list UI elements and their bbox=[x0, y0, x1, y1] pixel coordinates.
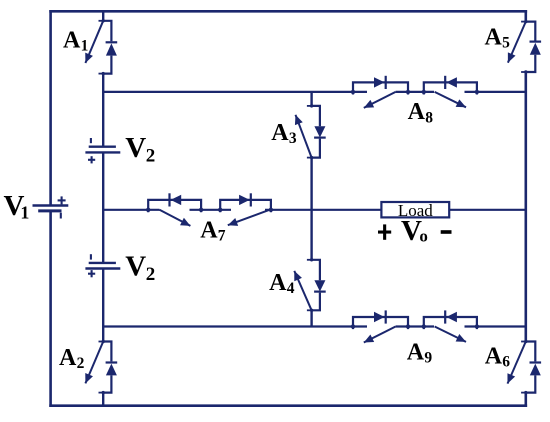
label + of Vo bbox=[378, 224, 391, 239]
wire right border middle (A5 to A6) bbox=[524, 72, 527, 342]
wire row3 left segment (bus to A9) bbox=[103, 325, 367, 327]
wire left bus segment top (border to A1) bbox=[102, 11, 104, 20]
svg-text:2: 2 bbox=[146, 264, 156, 285]
load box bbox=[381, 202, 449, 217]
node at A8 right stub bbox=[475, 90, 479, 94]
svg-text:2: 2 bbox=[77, 355, 85, 372]
node at A9 left stub bbox=[351, 324, 355, 328]
node at A9 right stub bbox=[475, 324, 479, 328]
wire row2 segment (load box to right border) bbox=[449, 209, 526, 211]
bidirectional switch A7 right half: diode loop bbox=[220, 193, 271, 212]
wire middle bus segment (row1 to A3) bbox=[310, 92, 312, 106]
svg-text:A: A bbox=[63, 28, 81, 54]
battery V2 lower bbox=[85, 254, 120, 277]
bidirectional switch A8 right half: blade bbox=[435, 92, 466, 107]
label minus of Vo bbox=[441, 230, 452, 234]
bidirectional switch A8 left half: blade bbox=[364, 92, 396, 108]
bidirectional switch A7 right half: blade bbox=[228, 210, 270, 225]
bidirectional switch A9 right half: diode loop bbox=[424, 310, 477, 329]
svg-text:6: 6 bbox=[502, 354, 510, 371]
svg-text:8: 8 bbox=[425, 109, 433, 126]
switch A2 bbox=[85, 340, 105, 395]
bidirectional switch A9 left half: diode loop bbox=[353, 310, 408, 329]
node at A7 inner right bbox=[218, 208, 222, 212]
wire bottom border bbox=[49, 404, 527, 407]
wire right border bottom (below A6) bbox=[524, 393, 527, 407]
diode D4 (antiparallel of A4) bbox=[312, 260, 326, 311]
svg-text:7: 7 bbox=[218, 228, 226, 245]
svg-text:A: A bbox=[408, 99, 426, 125]
svg-text:o: o bbox=[419, 226, 428, 245]
wire left bus segment bottom (A2 to border) bbox=[102, 393, 104, 406]
wire row1 right segment (A8 to right border) bbox=[465, 91, 526, 93]
diode D6 (antiparallel of A6) bbox=[526, 342, 541, 393]
svg-text:3: 3 bbox=[289, 130, 297, 147]
wire middle bus segment (A4 to row3) bbox=[310, 310, 312, 326]
svg-text:V: V bbox=[125, 132, 146, 164]
svg-text:1: 1 bbox=[20, 202, 29, 222]
diode D2 (antiparallel of A2) bbox=[103, 342, 117, 393]
diode D5 (antiparallel of A5) bbox=[526, 22, 541, 72]
svg-text:A: A bbox=[269, 270, 287, 296]
wire row2 segment (A7 to load box) bbox=[265, 209, 381, 211]
node at A7 inner left bbox=[199, 208, 203, 212]
svg-text:2: 2 bbox=[146, 146, 156, 167]
wire middle bus segment (A3 to A4) bbox=[310, 158, 312, 260]
wire row3 right segment (A9 to right border) bbox=[465, 325, 526, 327]
wire row3 middle segment (between A9 halves) bbox=[396, 325, 434, 327]
wire row1 middle segment (between A8 halves) bbox=[396, 91, 434, 93]
wire top border bbox=[49, 10, 527, 13]
switch A4 bbox=[294, 258, 313, 312]
node at A8 left stub bbox=[351, 90, 355, 94]
svg-text:A: A bbox=[407, 340, 425, 366]
switch A6 bbox=[508, 340, 528, 395]
svg-text:A: A bbox=[200, 218, 218, 244]
bidirectional switch A9 right half: blade bbox=[435, 327, 466, 342]
wire right border top (above A5) bbox=[524, 10, 527, 22]
svg-text:5: 5 bbox=[502, 35, 510, 52]
battery V2 upper bbox=[85, 138, 120, 163]
node at A7 right stub bbox=[269, 208, 273, 212]
svg-text:A: A bbox=[59, 345, 77, 371]
wire row1 left segment (bus to A8) bbox=[103, 91, 367, 93]
switch A5 bbox=[508, 20, 528, 74]
wire left border lower (below V1) bbox=[49, 211, 52, 407]
node at A7 left stub bbox=[146, 208, 150, 212]
svg-text:9: 9 bbox=[424, 350, 432, 367]
node at A8 inner right bbox=[422, 90, 426, 94]
wire row2 segment (between A7 halves) bbox=[190, 209, 232, 211]
wire left border upper (above V1) bbox=[49, 10, 52, 206]
node at A9 inner left bbox=[406, 324, 410, 328]
node at A8 inner left bbox=[406, 90, 410, 94]
svg-text:4: 4 bbox=[287, 280, 295, 297]
svg-text:V: V bbox=[125, 251, 146, 283]
wire row2 segment (bus to A7) bbox=[103, 209, 159, 211]
bidirectional switch A7 left half: blade bbox=[160, 210, 191, 226]
bidirectional switch A9 left half: blade bbox=[364, 327, 396, 343]
wire left bus segment (A1 to upper V2) bbox=[102, 74, 104, 147]
node at A9 inner right bbox=[422, 324, 426, 328]
svg-text:A: A bbox=[485, 344, 503, 370]
bidirectional switch A8 right half: diode loop bbox=[424, 76, 477, 95]
svg-text:A: A bbox=[485, 25, 503, 51]
switch A1 bbox=[85, 19, 105, 75]
bidirectional switch A7 left half: diode loop bbox=[148, 193, 201, 212]
diode D1 (antiparallel of A1) bbox=[103, 21, 117, 74]
bidirectional switch A8 left half: diode loop bbox=[353, 76, 408, 95]
wire left bus segment (upper V2 to lower V2) bbox=[102, 152, 104, 263]
diode D3 (antiparallel of A3) bbox=[312, 106, 326, 158]
svg-text:1: 1 bbox=[81, 38, 89, 55]
wire left bus segment (lower V2 to A2) bbox=[102, 269, 104, 342]
battery V1 bbox=[33, 196, 69, 218]
switch A3 bbox=[296, 104, 314, 159]
svg-text:A: A bbox=[271, 120, 289, 146]
